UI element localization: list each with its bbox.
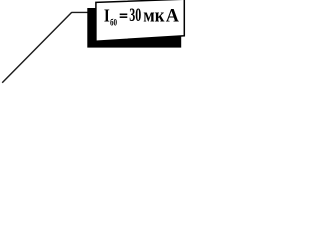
callout box	[96, 0, 184, 41]
svg-text:мк: мк	[143, 6, 164, 27]
equals sign	[120, 14, 128, 16]
svg-text:б0: б0	[110, 17, 117, 27]
callout shadow	[87, 8, 181, 48]
svg-text:I: I	[104, 5, 110, 25]
svg-text:А: А	[166, 6, 180, 27]
svg-text:30: 30	[129, 5, 141, 26]
leader line (diagonal + horizontal into callout)	[2, 12, 90, 82]
